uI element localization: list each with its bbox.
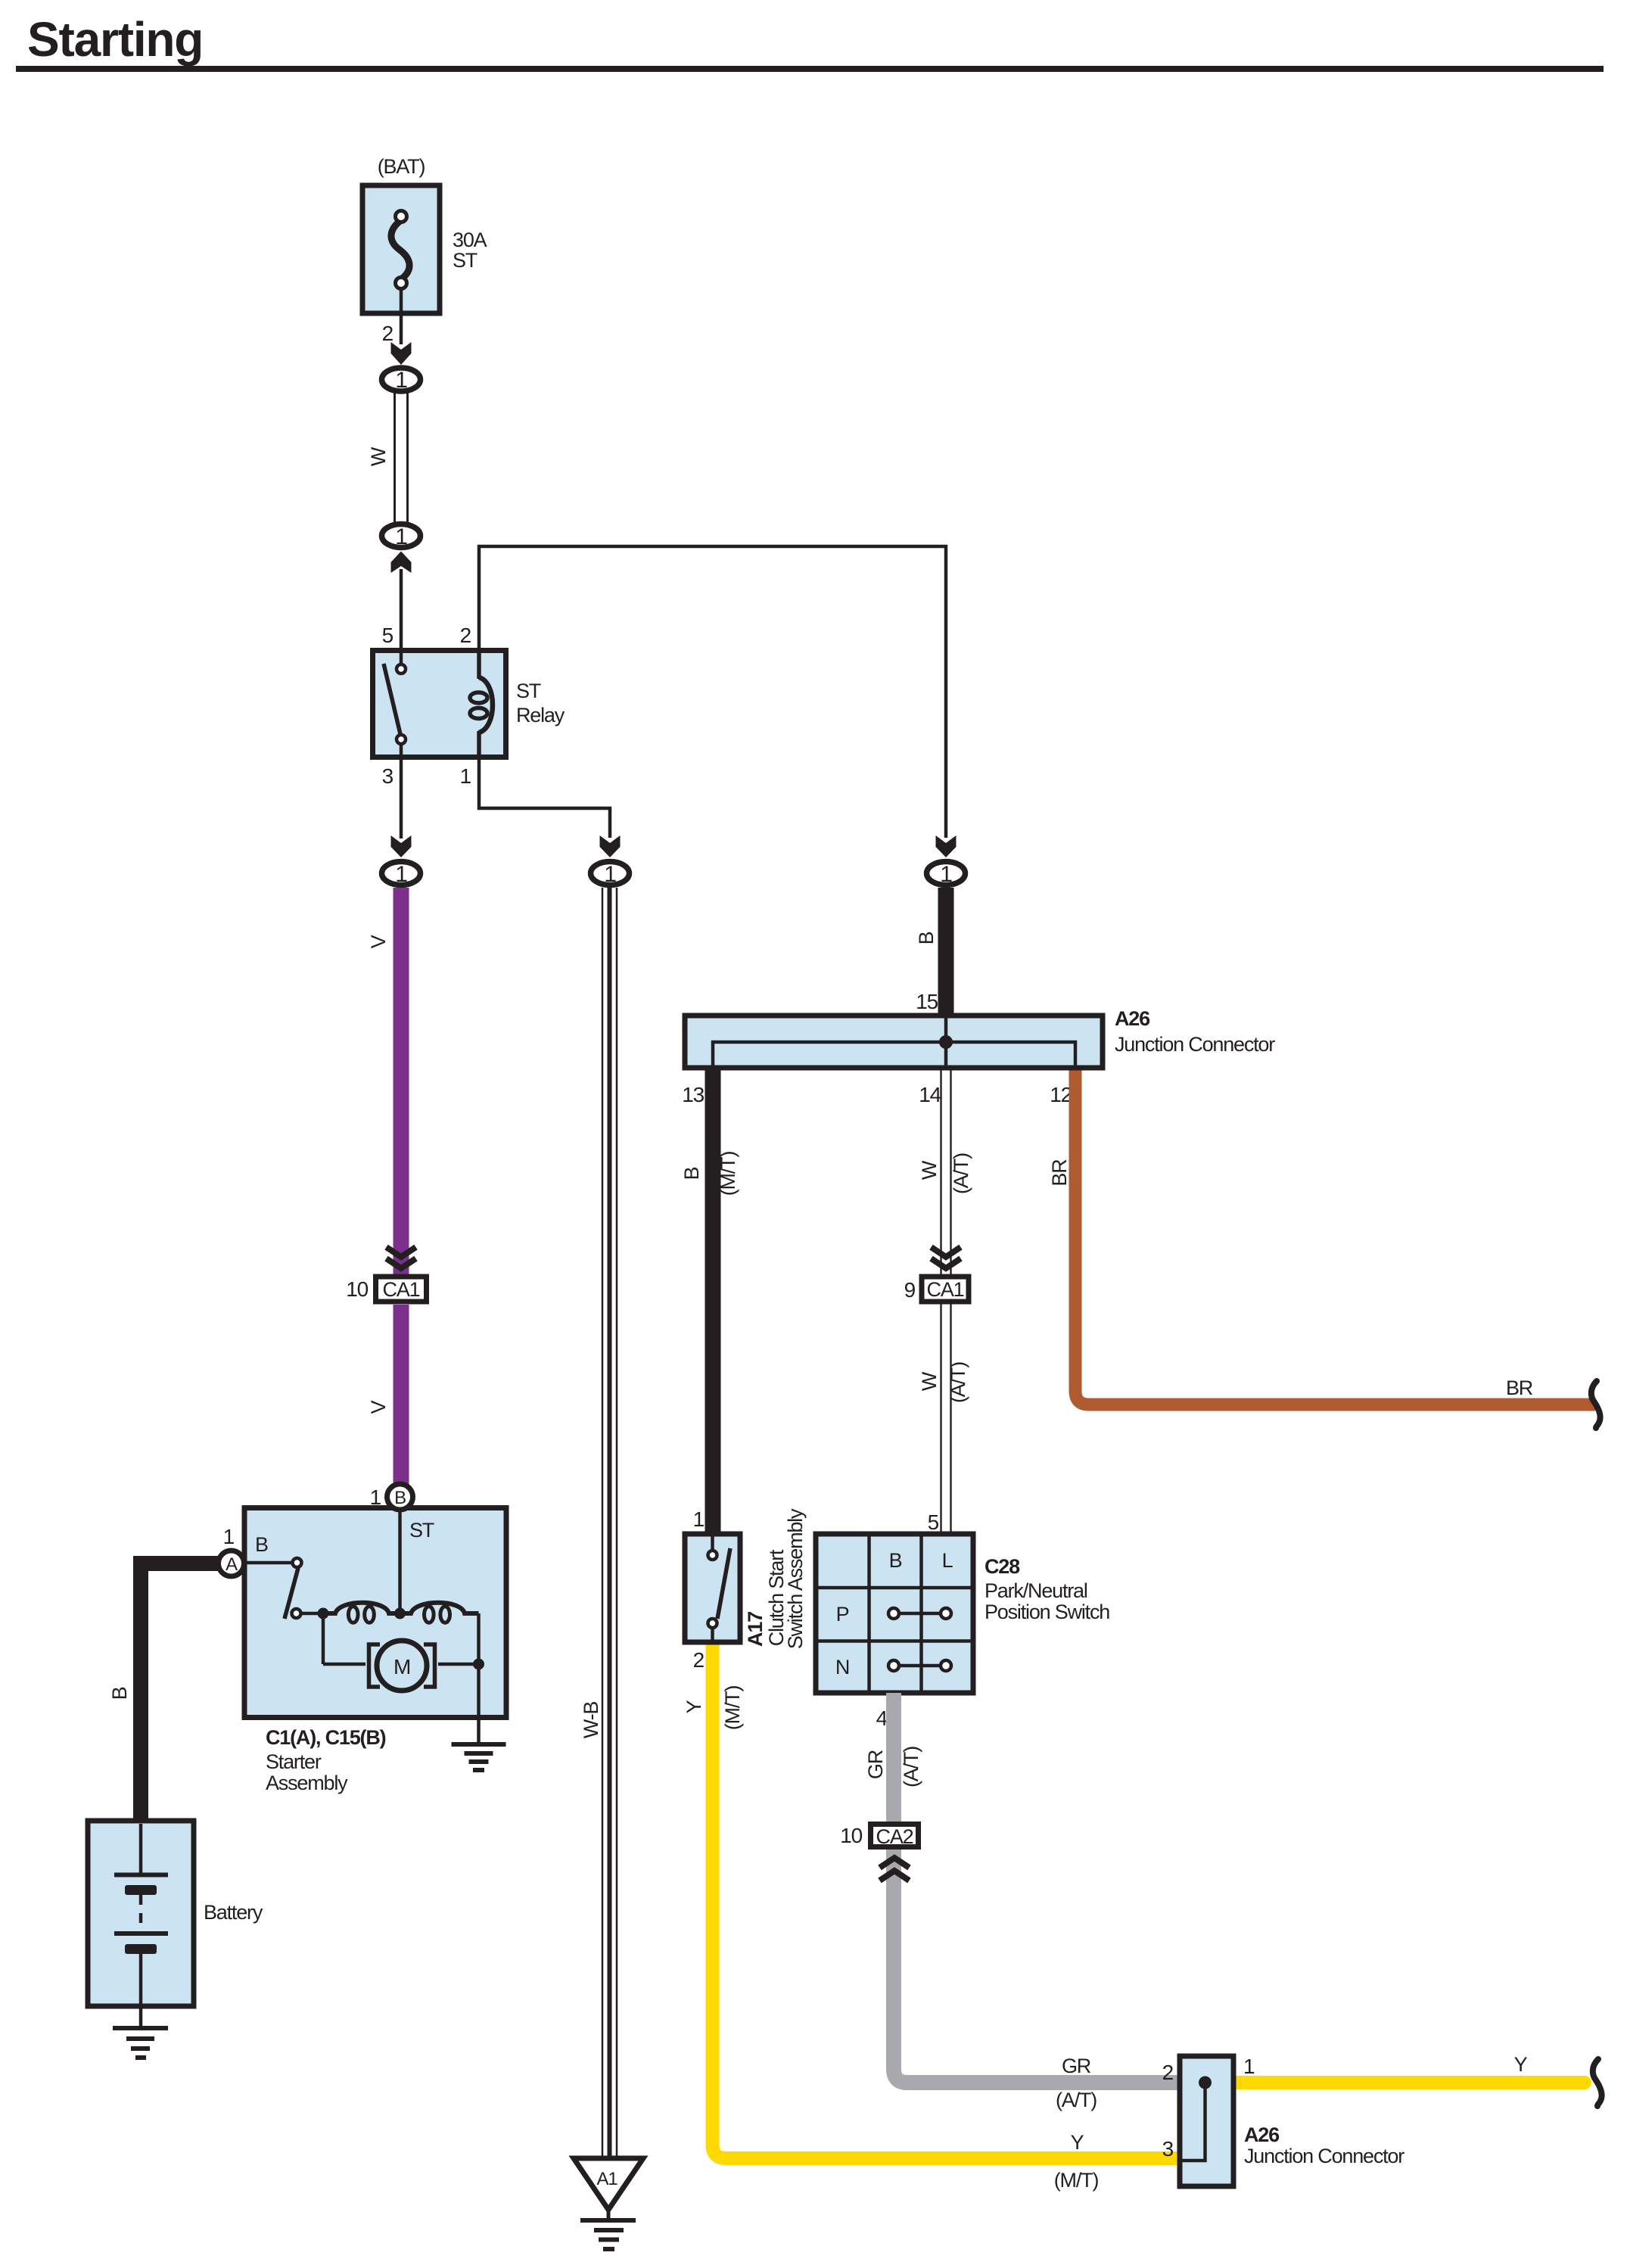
svg-text:N: N: [835, 1656, 849, 1678]
svg-text:(M/T): (M/T): [1054, 2169, 1099, 2192]
svg-text:1: 1: [604, 862, 616, 887]
svg-text:3: 3: [382, 764, 394, 788]
switch: [244, 1561, 293, 1565]
ground (battery): [113, 2028, 168, 2058]
svg-text:BR: BR: [1506, 1377, 1533, 1399]
svg-text:Starter: Starter: [266, 1750, 322, 1773]
svg-text:30A: 30A: [453, 229, 487, 251]
svg-text:(A/T): (A/T): [950, 1153, 972, 1194]
wire W (A/T) junction pin 14 to C28 pin 5: [918, 1068, 972, 1534]
svg-text:C1(A), C15(B): C1(A), C15(B): [266, 1726, 386, 1749]
svg-text:(BAT): (BAT): [378, 155, 425, 178]
node connector 1 (W-B wire): [591, 862, 630, 888]
svg-text:B: B: [394, 1488, 406, 1508]
svg-text:B: B: [108, 1687, 131, 1700]
svg-text:5: 5: [928, 1510, 939, 1534]
svg-text:C28: C28: [985, 1555, 1020, 1578]
svg-text:B: B: [889, 1549, 902, 1572]
svg-text:13: 13: [682, 1083, 704, 1106]
svg-text:Y: Y: [1071, 2131, 1084, 2154]
svg-text:2: 2: [382, 322, 394, 345]
svg-text:12: 12: [1050, 1083, 1072, 1106]
svg-text:Junction Connector: Junction Connector: [1244, 2145, 1404, 2167]
svg-text:A26: A26: [1244, 2123, 1280, 2146]
svg-text:10: 10: [346, 1277, 368, 1301]
svg-text:15: 15: [916, 990, 938, 1013]
svg-text:L: L: [942, 1549, 953, 1572]
svg-text:CA1: CA1: [383, 1278, 420, 1301]
svg-text:(M/T): (M/T): [721, 1686, 744, 1731]
svg-text:1: 1: [460, 764, 471, 788]
svg-text:(A/T): (A/T): [947, 1362, 969, 1403]
svg-text:B: B: [915, 932, 938, 944]
svg-text:(A/T): (A/T): [1056, 2089, 1097, 2111]
relay ST Relay: [373, 624, 565, 788]
wire Y (M/T) A17 pin 2 to bottom junction pin 3: [683, 1645, 1180, 2192]
svg-text:A17: A17: [744, 1612, 767, 1647]
svg-text:P: P: [836, 1603, 849, 1626]
wire relay pin 1 to node W-B: [479, 757, 621, 857]
fuse 30A ST: [362, 155, 487, 313]
junction connector A26 (top): [682, 1007, 1275, 1106]
wire W-B to ground A1: [580, 888, 617, 2158]
svg-text:1: 1: [395, 862, 407, 887]
wire Y continuation squiggle: [1593, 2059, 1602, 2106]
wire BR junction pin 12: [1048, 1071, 1595, 1405]
battery: [88, 1821, 263, 2027]
wire relay pin 3 to node V: [391, 757, 412, 857]
svg-text:ST: ST: [453, 249, 477, 272]
wire relay pin 2 to node B: [479, 546, 957, 857]
wire B to junction pin 15: [915, 888, 946, 1017]
svg-text:2: 2: [693, 1648, 705, 1672]
svg-text:9: 9: [904, 1278, 916, 1302]
svg-text:1: 1: [1243, 2055, 1255, 2078]
junction connector A26 (bottom right): [1180, 2055, 1404, 2186]
terminal A (1): [219, 1551, 244, 1576]
svg-text:1: 1: [940, 862, 952, 887]
svg-text:Junction Connector: Junction Connector: [1115, 1033, 1275, 1056]
terminal B (1): [387, 1484, 413, 1510]
svg-text:W-B: W-B: [580, 1702, 602, 1739]
svg-text:1: 1: [395, 524, 407, 549]
node connector 1 (B wire): [927, 862, 966, 888]
wire B battery to starter terminal A: [108, 1563, 218, 1822]
svg-text:3: 3: [1162, 2137, 1174, 2161]
svg-text:B: B: [680, 1167, 703, 1180]
wire BR continuation squiggle: [1583, 1381, 1600, 1428]
starter assembly C1(A), C15(B): [219, 1484, 507, 1794]
wire Y junction pin 1 continuation: [1236, 2053, 1592, 2089]
title Starting: [16, 12, 1604, 72]
node connector 1 (fuse side): [382, 368, 421, 393]
ground (starter): [452, 1718, 506, 1770]
ground A1: [574, 2158, 643, 2249]
svg-text:Y: Y: [1514, 2053, 1528, 2076]
svg-text:Switch Assembly: Switch Assembly: [784, 1508, 807, 1649]
wire W (white): [367, 393, 408, 522]
svg-text:(A/T): (A/T): [900, 1747, 922, 1787]
svg-text:CA1: CA1: [927, 1278, 964, 1301]
svg-text:CA2: CA2: [876, 1825, 913, 1848]
svg-text:10: 10: [840, 1824, 862, 1847]
svg-text:A26: A26: [1115, 1007, 1150, 1030]
svg-text:BR: BR: [1048, 1159, 1071, 1187]
svg-text:GR: GR: [864, 1750, 887, 1779]
connector CA1 (10) on V wire: [346, 1247, 426, 1302]
svg-text:2: 2: [460, 624, 471, 647]
park/neutral position switch C28: [816, 1510, 1109, 1730]
svg-text:Battery: Battery: [204, 1901, 263, 1924]
svg-text:4: 4: [876, 1706, 888, 1730]
svg-text:M: M: [394, 1655, 410, 1678]
svg-text:GR: GR: [1062, 2055, 1091, 2077]
svg-text:1: 1: [693, 1507, 705, 1531]
svg-text:Assembly: Assembly: [266, 1772, 348, 1794]
node connector 1 (relay side): [382, 524, 421, 550]
svg-text:W: W: [918, 1160, 941, 1180]
node connector 1 (V wire): [382, 862, 421, 888]
ST wire inside: [398, 1510, 402, 1613]
svg-text:14: 14: [919, 1083, 941, 1106]
svg-text:Starting: Starting: [27, 12, 203, 67]
svg-text:1: 1: [395, 368, 407, 393]
svg-text:W: W: [367, 446, 390, 466]
svg-text:1: 1: [223, 1525, 235, 1548]
wire B (M/T) junction pin 13 to A17: [680, 1068, 739, 1534]
svg-text:ST: ST: [516, 680, 541, 702]
motor M: [322, 1619, 325, 1664]
svg-text:Position Switch: Position Switch: [985, 1601, 1109, 1623]
wire V (violet) lower: [367, 1305, 401, 1487]
svg-text:B: B: [255, 1533, 268, 1556]
connector CA2 (10) on GR wire: [840, 1824, 918, 1881]
svg-text:V: V: [367, 1400, 390, 1414]
svg-text:(M/T): (M/T): [717, 1152, 739, 1196]
connector CA1 (9) on W wire: [904, 1247, 969, 1302]
svg-text:1: 1: [370, 1486, 381, 1509]
wire V (violet) upper: [367, 888, 401, 1277]
svg-text:A1: A1: [597, 2169, 618, 2189]
svg-text:ST: ST: [409, 1519, 434, 1542]
svg-text:5: 5: [382, 624, 394, 647]
wire GR (A/T) C28 pin 4 to bottom junction pin 2: [864, 1693, 1180, 2111]
svg-text:Y: Y: [683, 1700, 705, 1713]
clutch start switch A17: [685, 1507, 807, 1672]
svg-text:Relay: Relay: [516, 704, 565, 726]
field coils: [328, 1603, 395, 1613]
svg-text:V: V: [367, 935, 390, 948]
svg-text:W: W: [918, 1371, 941, 1391]
svg-text:A: A: [226, 1554, 238, 1575]
wire fuse pin 2 to connector: [382, 313, 412, 365]
svg-text:2: 2: [1162, 2061, 1174, 2084]
svg-text:Park/Neutral: Park/Neutral: [985, 1579, 1087, 1602]
wire to relay pin 5: [391, 552, 412, 652]
